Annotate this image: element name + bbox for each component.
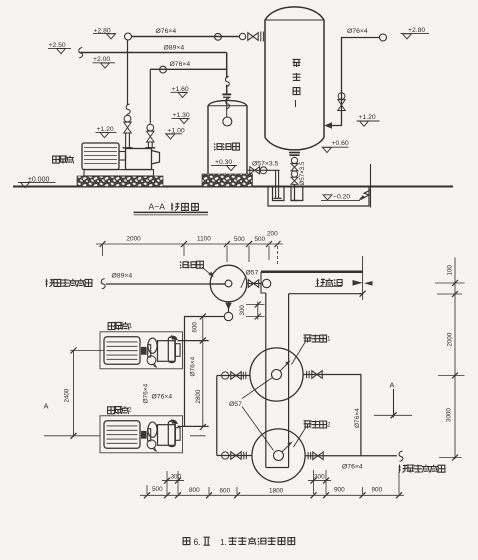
svg-text:Ø57: Ø57 — [246, 270, 259, 277]
label pump 2 plan — [108, 406, 132, 414]
label D76x4 line 1 — [156, 28, 177, 35]
pump P1 coupling — [119, 152, 126, 161]
svg-text:2000: 2000 — [447, 332, 454, 346]
elevation mark +-0.000 — [18, 176, 56, 187]
rotated labels D76x4 between pumps — [190, 356, 197, 376]
feed pipe D89x4 into filter — [101, 273, 225, 289]
pit cup 1 — [273, 187, 285, 201]
label D76x4 horizontal mid — [152, 394, 173, 401]
elevation mark +1.20 left — [96, 126, 117, 138]
reactor R2 outlet discharge line — [305, 451, 403, 461]
svg-text:500: 500 — [152, 486, 163, 493]
reactor R2 circle plan — [252, 429, 305, 482]
reactor R1 inlet branch — [217, 372, 250, 380]
svg-text:Ø76×4: Ø76×4 — [156, 28, 177, 35]
section cut break line with arrow — [359, 164, 371, 208]
svg-text:A: A — [390, 381, 395, 390]
label filter (guolvqi) — [214, 143, 239, 150]
reactor R2 inlet branch — [217, 452, 252, 460]
svg-text:800: 800 — [189, 487, 200, 494]
svg-text:1: 1 — [129, 322, 133, 329]
drain pipe into pit — [291, 184, 299, 200]
svg-text:1: 1 — [327, 336, 331, 343]
label reactor 1 plan with leader — [292, 335, 332, 365]
elevation mark +0.30 — [211, 159, 237, 171]
pump P2 plan — [100, 416, 183, 453]
elevation mark +2.80 left — [93, 27, 116, 38]
svg-text:300: 300 — [314, 474, 325, 481]
svg-text:2400: 2400 — [64, 388, 71, 402]
label to process network (jie zhi gongyi guanwang) — [399, 465, 445, 473]
reactor R1 vessel — [265, 7, 324, 150]
elevation mark +2.80 right — [401, 27, 430, 39]
mini dimension 300 at filter drop — [239, 302, 265, 320]
svg-text:600: 600 — [220, 487, 231, 494]
svg-text:+0.60: +0.60 — [332, 140, 349, 147]
svg-text:500: 500 — [234, 236, 245, 243]
riser pipe from pump discharge (right) — [145, 69, 155, 148]
svg-text:900: 900 — [334, 487, 345, 494]
svg-text:Ø76×4: Ø76×4 — [190, 356, 197, 376]
svg-text:A−A: A−A — [149, 202, 166, 212]
pump P1 motor — [82, 143, 119, 170]
reactor outlet top run — [342, 34, 387, 91]
ground line — [13, 186, 453, 188]
svg-text:1800: 1800 — [269, 487, 284, 494]
valve on right riser — [147, 124, 155, 142]
svg-text:+2.00: +2.00 — [93, 56, 110, 63]
elevation marks +1.60 +1.30 +1.00 — [171, 86, 189, 98]
section marker A right — [374, 381, 412, 419]
reactor bottom drain flanges — [289, 153, 300, 156]
pit outline — [268, 187, 369, 207]
filter drain valve and label D57x3.5 — [247, 161, 278, 175]
pump P1 discharge line — [178, 340, 209, 342]
svg-text:Ø89×4: Ø89×4 — [112, 273, 133, 280]
svg-text:1100: 1100 — [197, 235, 211, 242]
svg-text:2800: 2800 — [195, 389, 202, 403]
label pump (jiayabeng) — [53, 156, 74, 164]
elevation mark +0.60 — [322, 140, 349, 153]
svg-text:300: 300 — [171, 474, 182, 481]
svg-text:3000: 3000 — [446, 408, 453, 422]
label D57 with two leaders to nozzles — [229, 378, 274, 451]
bottom dimension chain — [140, 470, 404, 498]
svg-text:2000: 2000 — [127, 235, 142, 242]
pump P2 discharge line — [178, 425, 209, 427]
svg-text:Ø76×4: Ø76×4 — [143, 383, 150, 403]
filter feed drop pipe — [226, 53, 228, 94]
filter foundation (hatched) — [202, 174, 253, 187]
svg-text:200: 200 — [267, 230, 278, 237]
svg-text:Ø57×3.5: Ø57×3.5 — [252, 161, 278, 168]
filter drain drop pipe into pit — [274, 170, 282, 198]
elevation mark +2.00 — [93, 56, 116, 68]
caption — [183, 537, 295, 547]
reactor side nozzle +1.20 pipe — [324, 91, 341, 129]
filter circle plan — [210, 265, 247, 302]
svg-text:Ø89×4: Ø89×4 — [164, 45, 185, 52]
filter vessel — [208, 100, 247, 174]
drain channel west cap and step — [261, 272, 266, 293]
svg-text:+1.20: +1.20 — [359, 114, 376, 121]
svg-text:600: 600 — [192, 322, 199, 333]
drain channel south edge — [289, 293, 363, 295]
filter bottom drop with arrow and riser circle — [224, 302, 232, 321]
pipe break on left riser — [126, 104, 130, 114]
label filter plan with leader — [180, 261, 214, 277]
pipe line 2 (D89x4 from network) — [80, 52, 227, 54]
left dimension 2400 — [44, 348, 206, 439]
label D76x4 top right — [347, 28, 368, 35]
svg-text:1.: 1. — [220, 538, 227, 547]
reactor R1 outlet to right header — [303, 371, 361, 456]
reactor R1 circle plan — [250, 348, 303, 401]
pump P1 base plate — [84, 170, 154, 176]
pipe line 1 (D76x4 to reactor top), with riser circles — [125, 33, 240, 40]
svg-text:A: A — [44, 402, 49, 411]
pump P1 casing — [126, 149, 160, 170]
distribution header to reactors — [216, 376, 218, 456]
pipe break at filter dome — [226, 98, 230, 108]
elevation mark -0.20 — [321, 194, 360, 201]
top dimension chain line — [96, 230, 283, 264]
svg-text:100: 100 — [447, 265, 454, 276]
label reactor 2 plan with leader — [294, 420, 332, 447]
pump P1 foundation (hatched) — [77, 176, 163, 187]
label drain channel (paishuigou) — [315, 278, 342, 286]
valve at reactor inlet — [239, 32, 263, 42]
suction header pipe from filter — [185, 317, 225, 427]
filter top flange fitting — [222, 94, 231, 117]
svg-text:Ø76×4: Ø76×4 — [347, 28, 368, 35]
svg-text:Ø76×4: Ø76×4 — [342, 463, 363, 470]
drain channel east cap — [353, 256, 373, 300]
svg-text:Ø76×4: Ø76×4 — [170, 61, 191, 68]
title A-A — [134, 202, 209, 215]
label reactor 1 (vertical) — [293, 59, 301, 107]
elevation mark +2.50 — [48, 42, 71, 53]
svg-text:2: 2 — [327, 422, 331, 429]
pump P1 plan — [100, 332, 183, 369]
label D76x4 line 3 — [170, 61, 191, 68]
filter outlet valve to drain channel, label D57 — [241, 270, 271, 288]
filter gauge circle — [223, 117, 232, 126]
pipe break line 2 start — [79, 48, 83, 58]
drain channel north edge (thick) — [261, 270, 363, 273]
pit cup 2 — [291, 187, 303, 201]
svg-text:500: 500 — [255, 236, 266, 243]
drain valve stack — [291, 157, 298, 184]
valve on left riser — [124, 115, 132, 133]
pipe break on drop — [225, 76, 229, 86]
svg-text:+1.30: +1.30 — [173, 112, 190, 119]
svg-text:Ø76×4: Ø76×4 — [152, 394, 173, 401]
pipe line 3 (D76x4 pump to filter) — [150, 66, 226, 73]
label from process network (jie zi gongyi guanwang) — [46, 279, 92, 287]
svg-text:−0.20: −0.20 — [333, 194, 350, 201]
label pump 1 plan — [108, 322, 132, 330]
label D76x4 bottom — [342, 463, 363, 470]
elevation mark +1.20 right — [357, 114, 380, 126]
right dimension chain — [435, 258, 465, 461]
svg-text:Ø57: Ø57 — [229, 401, 242, 408]
svg-text:900: 900 — [372, 487, 383, 494]
svg-text:2: 2 — [128, 407, 132, 414]
svg-text:300: 300 — [239, 305, 246, 316]
label D76x4 rotated right header — [354, 408, 361, 428]
riser pipe from pump discharge (left) — [123, 40, 133, 148]
svg-text:Ø57×3.5: Ø57×3.5 — [299, 161, 306, 185]
label D89x4 — [164, 45, 185, 52]
svg-text:Ø76×4: Ø76×4 — [354, 408, 361, 428]
svg-text:6.: 6. — [194, 537, 201, 547]
section letter A left — [44, 402, 49, 411]
drain channel vertical arm — [266, 293, 289, 468]
dimension chain 600/2800 — [192, 314, 206, 431]
valve on reactor outlet riser — [338, 93, 346, 111]
label D57x3.5 (rotated, at drain) — [299, 161, 306, 185]
